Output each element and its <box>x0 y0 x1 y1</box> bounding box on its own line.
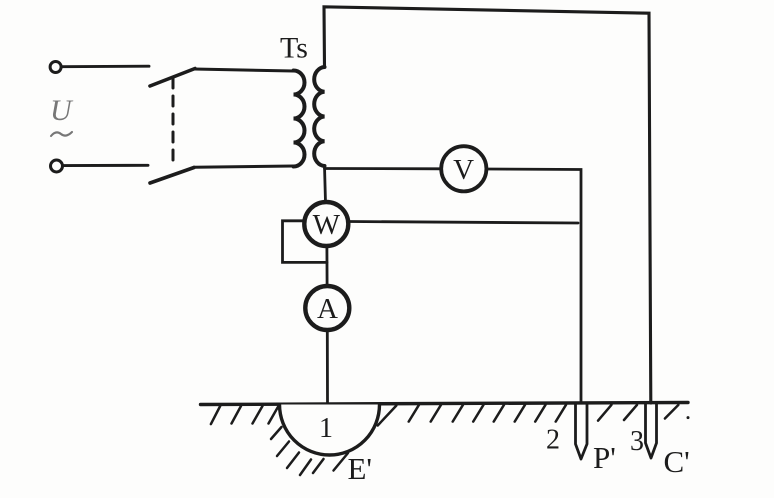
svg-text:1: 1 <box>319 413 333 444</box>
svg-text:Ts: Ts <box>280 32 308 65</box>
svg-text:E': E' <box>348 451 373 486</box>
svg-text:U: U <box>50 94 74 127</box>
svg-text:2: 2 <box>546 425 560 456</box>
svg-text:W: W <box>313 209 341 241</box>
svg-text:P': P' <box>593 440 616 475</box>
svg-text:3: 3 <box>630 426 644 457</box>
svg-text:A: A <box>317 293 338 325</box>
svg-text:V: V <box>453 154 474 186</box>
svg-text:C': C' <box>664 444 690 479</box>
